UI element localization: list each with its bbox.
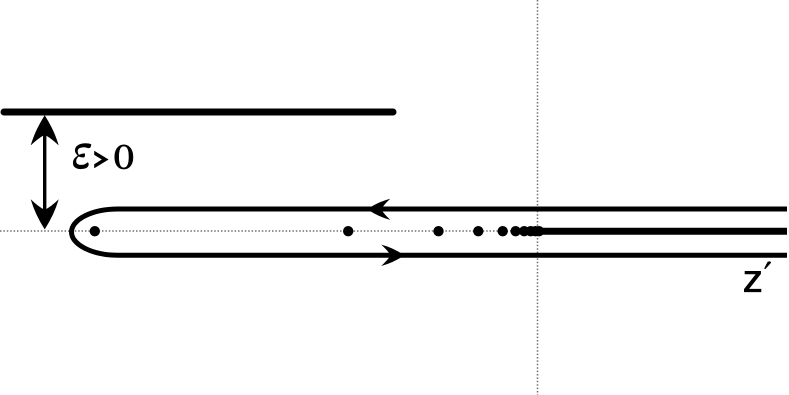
right arrow on lower contour xyxy=(381,245,404,266)
pole dots xyxy=(90,226,100,236)
up arrowhead xyxy=(31,115,59,145)
Hankel contour xyxy=(72,209,788,255)
branch cut upper line xyxy=(4,109,393,116)
epsilon gap double arrow shaft xyxy=(43,130,46,215)
branch cut right thick line xyxy=(537,228,787,235)
real axis (horizontal dotted) xyxy=(0,230,789,232)
left arrow on upper contour xyxy=(367,199,390,220)
down arrowhead xyxy=(31,199,59,229)
label epsilon>0 xyxy=(73,143,91,169)
imaginary axis (vertical dotted) xyxy=(537,0,539,395)
label z prime xyxy=(744,271,761,292)
